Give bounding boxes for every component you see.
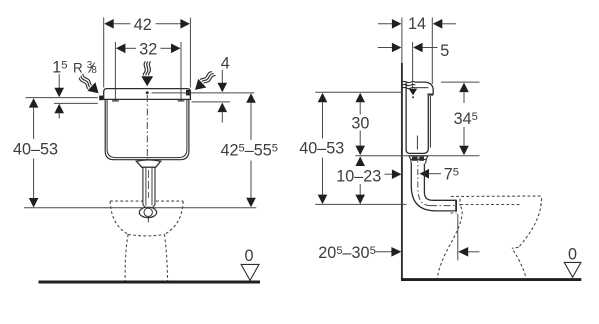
- svg-text:15: 15: [52, 58, 67, 76]
- svg-text:0: 0: [244, 247, 253, 265]
- reference line lid-top left segment: [26, 97, 98, 99]
- side squiggle wavy lines: [402, 81, 415, 82]
- flush bend socket outer: [139, 207, 156, 217]
- reference line body top right segment: [192, 101, 231, 103]
- dim 7.5 arrowhead: [420, 169, 430, 179]
- dim 34.5 stem upper: [463, 92, 465, 103]
- cistern lid outline: [104, 89, 191, 100]
- bowl rim reference line right drawing: [315, 203, 406, 205]
- dim 4 upper stem and down arrowhead: [221, 70, 223, 85]
- toilet bowl bottom dashed: [128, 234, 164, 236]
- dim 10-23 stem lower: [359, 184, 361, 196]
- floor line right: [401, 278, 581, 281]
- dim 32 extension line right: [180, 42, 182, 101]
- dim 20.5-30.5 left arrowhead and stem: [458, 247, 468, 257]
- wall line: [401, 63, 403, 281]
- svg-text:4: 4: [221, 54, 230, 72]
- dim 14 left stem and arrowhead: [378, 23, 394, 25]
- flush valve nut: [136, 160, 160, 167]
- dim 40-53 up arrowhead: [29, 98, 39, 108]
- dim 42.5-55.5 stem lower: [250, 161, 252, 199]
- side valve nut knurl right: [419, 157, 424, 161]
- dim 30 down arrowhead: [355, 146, 365, 156]
- right toilet below-pipe dash: [451, 212, 457, 214]
- dim 10-23 wall leader: [385, 173, 395, 175]
- dim 20.5-30.5 stem and right arrowhead: [376, 251, 393, 253]
- svg-text:205–305: 205–305: [318, 244, 376, 262]
- cistern center line (dash-dot): [146, 95, 148, 160]
- lid clip tick right: [178, 100, 185, 102]
- dim 30 up arrowhead: [355, 93, 365, 103]
- reference line body-top left segment: [54, 102, 98, 104]
- svg-text:8: 8: [91, 65, 97, 76]
- cistern bottom reference line: [355, 155, 479, 157]
- dim 32 extension line left: [114, 42, 116, 101]
- dim 40-53 (right) down arrowhead: [318, 195, 328, 205]
- svg-text:30: 30: [351, 115, 369, 133]
- toilet bowl left side dashed: [110, 201, 128, 234]
- svg-text:42: 42: [134, 16, 152, 34]
- dim 1.5 lower up arrowhead and stem: [54, 104, 64, 114]
- flush bend socket inner: [144, 208, 152, 216]
- svg-text:75: 75: [444, 166, 459, 184]
- bowl rim reference line: [24, 207, 256, 209]
- side cistern lip bottom edge: [427, 93, 433, 95]
- dim 7.5 stem: [429, 173, 442, 175]
- dim 30 stem upper: [359, 102, 361, 115]
- side cistern front inner: [429, 96, 431, 148]
- dim 14 extension line right: [431, 18, 433, 85]
- svg-text:40–53: 40–53: [299, 140, 344, 158]
- dim 40-53 (right) stem lower: [322, 158, 324, 196]
- dim 32 arrowhead right: [171, 44, 181, 54]
- cistern body outline: [105, 99, 189, 159]
- dim 40-53 (right) up arrowhead: [318, 93, 328, 103]
- dim 40-53 stem lower: [33, 159, 35, 199]
- svg-text:40–53: 40–53: [13, 141, 58, 159]
- right supply inlet black square: [186, 90, 190, 96]
- side cistern lid top and front lip: [415, 82, 434, 95]
- wall extension line top: [401, 18, 403, 64]
- svg-text:425–555: 425–555: [221, 142, 279, 160]
- pedestal right dashed: [165, 234, 168, 281]
- dim 5 left stem and arrowhead: [378, 47, 394, 49]
- side supply down arrowhead: [409, 89, 417, 96]
- dim 5 extension line: [412, 42, 414, 89]
- svg-text:32: 32: [139, 40, 157, 58]
- toilet bowl right side dashed: [165, 201, 184, 234]
- dim 42 line: [112, 23, 131, 25]
- dim 42 extension line right: [189, 18, 191, 88]
- dim 40-53 (right) stem upper: [322, 102, 324, 139]
- top reference line right drawing: [315, 91, 402, 93]
- dim 42 arrowhead left: [104, 19, 114, 29]
- dim 42 extension line left: [103, 18, 105, 88]
- reference line lid level right segment: [152, 92, 255, 94]
- datum triangle right: [564, 262, 581, 277]
- datum triangle left: [241, 264, 259, 280]
- right toilet spud vertical dashed: [459, 199, 461, 206]
- flush pipe inner walls: [145, 168, 147, 206]
- lid clip tick left: [112, 100, 119, 102]
- pipe center line horizontal (dash-dot): [430, 205, 455, 207]
- dim 14 right arrowhead and stem: [433, 19, 443, 29]
- flush pipe body: [143, 167, 155, 209]
- dim 40-53 stem upper: [33, 107, 35, 139]
- side supply dot: [412, 96, 414, 98]
- dim 42.5-55.5 down arrowhead: [246, 198, 256, 208]
- dim 10-23 up arrowhead: [355, 157, 365, 167]
- svg-text:345: 345: [454, 110, 478, 128]
- right toilet front profile dashed: [520, 204, 542, 247]
- dim 1.5 upper stem and down arrowhead: [58, 74, 60, 89]
- side valve nut: [409, 156, 428, 164]
- dim 5 right arrowhead and stem: [413, 43, 423, 53]
- pipe center dash: [147, 170, 149, 198]
- elbow pipe end cap: [455, 200, 457, 212]
- dim 42.5-55.5 up arrowhead: [246, 93, 256, 103]
- svg-text:14: 14: [408, 15, 426, 33]
- dim 34.5 stem lower: [463, 127, 465, 147]
- left supply squiggle with arrow: [76, 72, 102, 98]
- svg-text:R: R: [73, 61, 83, 76]
- floor line left: [39, 281, 261, 284]
- left supply inlet black square: [99, 96, 103, 101]
- dim 32 line: [123, 47, 136, 49]
- side cistern front outer: [410, 96, 428, 153]
- dim 34.5 down arrowhead: [459, 146, 469, 156]
- right supply squiggle with arrow: [191, 69, 217, 95]
- toilet bowl rim dashed (front): [110, 200, 183, 202]
- svg-text:5: 5: [440, 42, 449, 60]
- center line below socket: [147, 218, 149, 223]
- svg-text:10–23: 10–23: [336, 168, 381, 186]
- dim 40-53 down arrowhead: [29, 198, 39, 208]
- dim 10-23 down arrowhead: [355, 195, 365, 205]
- dim 20.5-30.5 extension line: [457, 214, 459, 260]
- side cistern lid bottom line: [415, 87, 429, 89]
- pedestal left dashed: [125, 234, 128, 281]
- dim 42.5-55.5 stem upper: [250, 102, 252, 140]
- dim 34.5 top extension line: [441, 81, 480, 83]
- right toilet back profile dashed: [437, 207, 462, 279]
- right toilet rim bottom dashed: [461, 204, 522, 206]
- dim 34.5 up arrowhead: [459, 83, 469, 93]
- dim 32 arrowhead left: [116, 44, 126, 54]
- dim 4 lower up arrowhead and stem: [218, 103, 228, 113]
- pipe center line vertical (dash-dot): [416, 136, 418, 150]
- reference line lid level dot: [146, 91, 149, 94]
- top supply squiggle with arrow: [141, 61, 153, 86]
- elbow flush pipe outer: [411, 164, 456, 211]
- elbow flush pipe inner: [424, 164, 456, 201]
- right toilet rim top dashed: [451, 196, 542, 205]
- side cistern back: [406, 82, 410, 153]
- dim 42 arrowhead right: [180, 19, 190, 29]
- dim 30 stem lower: [359, 131, 361, 147]
- side valve nut knurl left: [412, 157, 417, 161]
- svg-text:0: 0: [568, 246, 577, 264]
